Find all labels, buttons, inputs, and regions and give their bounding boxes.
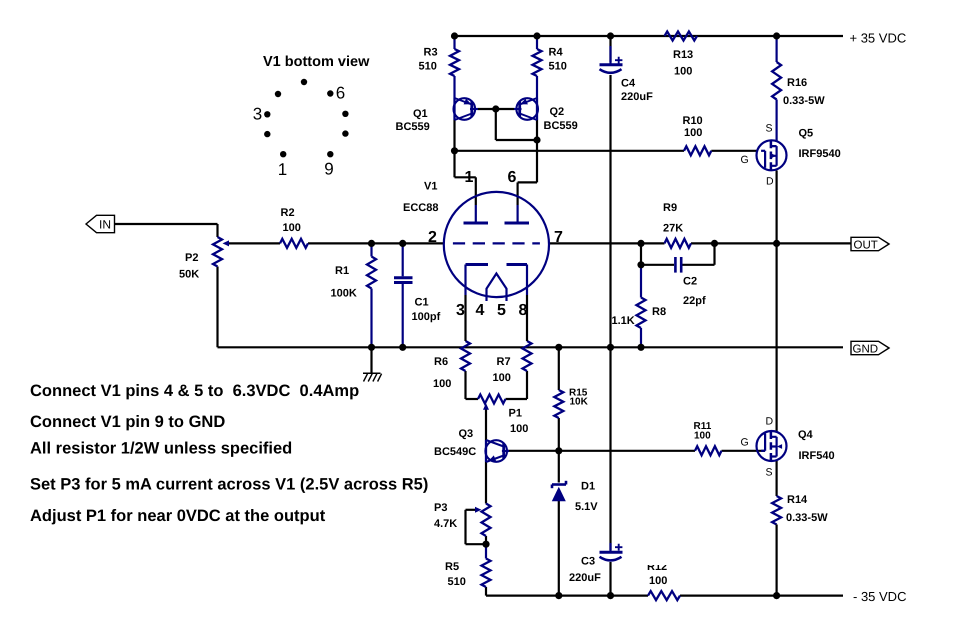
svg-text:R10: R10: [683, 115, 703, 127]
svg-text:IRF540: IRF540: [799, 450, 835, 462]
svg-text:100pf: 100pf: [412, 311, 441, 323]
V1 socket bottom view title: [263, 54, 370, 70]
potentiometer P3 4.7K: [434, 502, 491, 536]
junction R1 bottom/ground: [368, 344, 375, 351]
svg-text:Set P3 for 5 mA current across: Set P3 for 5 mA current across V1 (2.5V …: [30, 476, 428, 494]
svg-text:D: D: [766, 416, 774, 428]
transistor Q3 BC549C (NPN): [434, 428, 509, 462]
capacitor C1 100pf: [394, 243, 441, 347]
svg-text:S: S: [766, 123, 773, 135]
V1 heater filament (pins 4 and 5): [487, 274, 507, 302]
socket pin 1 label: [278, 160, 287, 179]
junction C2 left/R8 top: [637, 261, 644, 268]
resistor R5 510: [445, 544, 491, 588]
junction Q3 base/R15/D1: [555, 447, 562, 454]
resistor R2 100: [280, 207, 308, 248]
svg-text:P3: P3: [434, 502, 447, 514]
svg-text:BC559: BC559: [544, 120, 578, 132]
resistor R9 27K: [663, 202, 691, 248]
connector GND: [851, 341, 889, 355]
svg-text:D1: D1: [581, 481, 595, 493]
svg-text:V1 bottom view: V1 bottom view: [263, 54, 370, 70]
svg-text:0.33-5W: 0.33-5W: [786, 512, 828, 524]
svg-text:All resistor 1/2W unless speci: All resistor 1/2W unless specified: [30, 440, 292, 458]
note line 4: [30, 476, 428, 494]
V1 pin 7 label: [554, 229, 563, 246]
ground (earth) symbol below R1: [363, 347, 382, 381]
junction Q1-Q2 bases: [492, 105, 499, 112]
resistor R10 100: [683, 115, 712, 155]
svg-text:220uF: 220uF: [621, 91, 653, 103]
resistor R1 100K: [331, 243, 377, 347]
svg-text:+ 35 VDC: + 35 VDC: [850, 31, 907, 46]
svg-text:R8: R8: [652, 306, 666, 318]
junction R3/top rail: [451, 32, 458, 39]
svg-text:G: G: [741, 154, 749, 166]
resistor R13 100: [665, 32, 698, 78]
junction Q2 base-collector tie: [533, 136, 540, 143]
V1 pin 1 label: [465, 169, 474, 186]
wire Q1/Q2 base tie-down to Q2 collector: [496, 109, 537, 140]
svg-text:Connect V1 pin 9 to GND: Connect V1 pin 9 to GND: [30, 413, 225, 431]
svg-text:1: 1: [465, 169, 474, 186]
svg-text:G: G: [741, 437, 749, 449]
capacitor C3 220uF electrolytic: [569, 543, 623, 584]
note line 3: [30, 440, 292, 458]
zener diode D1 5.1V: [552, 481, 598, 514]
capacitor C2 22pf: [675, 257, 706, 307]
svg-text:5.1V: 5.1V: [575, 501, 598, 513]
resistor R8 1.1K: [612, 265, 667, 348]
svg-text:100: 100: [433, 378, 451, 390]
svg-text:3: 3: [456, 302, 465, 319]
wire P2 bottom to ground bus: [216, 267, 218, 348]
svg-text:0.33-5W: 0.33-5W: [783, 95, 825, 107]
svg-text:5: 5: [497, 302, 506, 319]
capacitor C4 220uF electrolytic: [600, 46, 654, 103]
junction R1 top: [368, 240, 375, 247]
svg-text:BC549C: BC549C: [434, 446, 476, 458]
V1 pin 2 label: [428, 229, 437, 246]
svg-text:Adjust P1 for near 0VDC at the: Adjust P1 for near 0VDC at the output: [30, 507, 326, 525]
potentiometer P1 100: [478, 395, 528, 436]
wire main output rail Q5 drain - OUT - Q4 drain: [775, 171, 777, 497]
transistor Q1 BC559 (PNP): [396, 98, 496, 151]
junction C1 bottom: [399, 344, 406, 351]
socket pin 6 label: [336, 84, 345, 103]
svg-text:C2: C2: [683, 276, 697, 288]
V1 cathodes (pins 3 and 8): [466, 265, 528, 342]
svg-text:100: 100: [510, 423, 528, 435]
V1 socket pin dots (bottom view): [264, 79, 349, 158]
svg-text:S: S: [766, 467, 773, 479]
transistor Q2 BC559 (PNP): [496, 98, 578, 132]
vacuum tube V1 ECC88 envelope: [403, 181, 549, 298]
junction OUT rail: [773, 240, 780, 247]
svg-text:C4: C4: [621, 78, 636, 90]
svg-text:100: 100: [649, 575, 667, 587]
svg-text:IRF9540: IRF9540: [799, 148, 841, 160]
svg-text:Q3: Q3: [459, 428, 474, 440]
svg-text:100: 100: [283, 222, 301, 234]
svg-text:100: 100: [674, 66, 692, 78]
svg-text:V1: V1: [424, 181, 437, 193]
V1 pin 8 label: [519, 302, 528, 319]
svg-text:OUT: OUT: [854, 239, 878, 251]
svg-text:Connect V1 pins 4 & 5 to 6.3V: Connect V1 pins 4 & 5 to 6.3VDC 0.4Amp: [30, 382, 359, 400]
wire V1 pin 7 to OUT line: [549, 242, 851, 244]
svg-text:510: 510: [549, 61, 567, 73]
net label +35 VDC: [850, 31, 907, 46]
wire R5 bottom to -35V rail: [485, 587, 487, 596]
wire IN to P2 top: [115, 224, 218, 237]
junction C1 top: [399, 240, 406, 247]
V1 pin 6 label: [508, 169, 517, 186]
V1 pin 5 label: [497, 302, 506, 319]
resistor R4 510: [533, 36, 567, 99]
net label -35 VDC: [853, 589, 906, 604]
svg-text:8: 8: [519, 302, 528, 319]
note line 2: [30, 413, 225, 431]
svg-text:R6: R6: [434, 356, 448, 368]
svg-text:2: 2: [428, 229, 437, 246]
svg-text:100: 100: [684, 127, 702, 139]
svg-text:Q2: Q2: [550, 106, 565, 118]
wire V1 pin 1 from Q1 collector junction: [455, 151, 476, 205]
resistor R11 100: [694, 421, 722, 455]
wire R6/R7 to P1 box: [466, 371, 528, 399]
svg-text:GND: GND: [853, 343, 879, 355]
svg-text:220uF: 220uF: [569, 572, 601, 584]
junction C3/-35 rail: [607, 592, 614, 599]
resistor R16 0.33-5W: [772, 36, 825, 141]
note line 1: [30, 382, 359, 400]
resistor R14 0.33-5W: [772, 494, 828, 596]
svg-text:22pf: 22pf: [683, 295, 706, 307]
svg-text:4: 4: [476, 302, 485, 319]
svg-text:ECC88: ECC88: [403, 202, 438, 214]
socket pin 3 label: [253, 105, 262, 124]
svg-text:27K: 27K: [663, 223, 683, 235]
resistor R3 510: [419, 36, 460, 99]
wire P3 wiper bypass to bottom of P3: [466, 510, 487, 544]
junction R16/top rail: [773, 32, 780, 39]
svg-text:R9: R9: [663, 202, 677, 214]
wire C2 branch around R9: [641, 243, 715, 264]
note line 5: [30, 507, 326, 525]
wire ground bus (P2/R1/C1/R15/C3-C4/R8 to GND tag): [218, 346, 844, 348]
resistor R7 100: [493, 341, 532, 384]
wire P3 to R5 junction: [485, 536, 487, 544]
potentiometer P2 50K: [179, 237, 229, 281]
svg-text:R5: R5: [445, 561, 459, 573]
wire +35V top rail: [455, 35, 844, 37]
resistor R12 100 (label top-clipped in source): [641, 549, 680, 600]
svg-text:510: 510: [419, 61, 437, 73]
svg-text:100: 100: [493, 372, 511, 384]
V1 anode plates (pins 1 and 6): [464, 205, 530, 223]
svg-text:R16: R16: [787, 77, 807, 89]
svg-text:6: 6: [508, 169, 517, 186]
svg-text:9: 9: [324, 160, 333, 179]
junction R4/top rail: [533, 32, 540, 39]
connector OUT: [851, 237, 889, 251]
svg-text:IN: IN: [99, 218, 111, 232]
resistor R15 10K: [554, 388, 588, 419]
junction C4/top rail: [607, 32, 614, 39]
junction C4-C3/ground bus: [607, 344, 614, 351]
junction R14/-35 rail: [773, 592, 780, 599]
svg-text:R14: R14: [787, 494, 808, 506]
socket pin 9 label: [324, 160, 333, 179]
svg-text:1: 1: [278, 160, 287, 179]
junction D1/-35 rail: [555, 592, 562, 599]
connector IN: [86, 215, 115, 232]
svg-text:510: 510: [448, 576, 466, 588]
wire Q3 emitter to P3: [485, 462, 487, 504]
svg-text:P2: P2: [185, 252, 198, 264]
wire R15/D1 stem: [558, 347, 560, 595]
V1 pin 3 label: [456, 302, 465, 319]
svg-text:C1: C1: [415, 297, 429, 309]
svg-text:4.7K: 4.7K: [434, 518, 457, 530]
svg-text:6: 6: [336, 84, 345, 103]
V1 pin 4 label: [476, 302, 485, 319]
wire R2 to V1 pin 2 (grid): [308, 242, 444, 244]
resistor R6 100: [433, 341, 470, 390]
svg-text:7: 7: [554, 229, 563, 246]
wire mirror-output line (Q1 collector to R10/Q5 gate): [455, 150, 758, 152]
svg-text:D: D: [766, 176, 774, 188]
V1 grid dashed line (pins 2 and 7): [453, 242, 540, 244]
svg-text:BC559: BC559: [396, 121, 430, 133]
svg-text:100: 100: [694, 431, 711, 442]
svg-text:R1: R1: [335, 265, 349, 277]
svg-text:1.1K: 1.1K: [612, 315, 635, 327]
MOSFET Q5 IRF9540 (P-channel): [741, 123, 841, 188]
svg-text:Q5: Q5: [799, 128, 814, 140]
junction R15 top: [555, 344, 562, 351]
svg-text:Q1: Q1: [413, 108, 428, 120]
svg-text:R13: R13: [673, 49, 693, 61]
wire C4/C3 vertical rail: [609, 36, 611, 596]
svg-text:10K: 10K: [570, 397, 589, 408]
wire -35V bottom rail: [486, 594, 843, 596]
wire Q3 base line to R11 / Q4 gate: [507, 450, 765, 452]
wire Q2 collector down to V1 pin 6 (crosses mirror line, no junction): [518, 120, 537, 206]
svg-text:P1: P1: [509, 408, 522, 420]
svg-text:Q4: Q4: [798, 429, 814, 441]
svg-text:50K: 50K: [179, 269, 199, 281]
MOSFET Q4 IRF540 (N-channel): [741, 416, 835, 479]
junction R9 left: [637, 240, 644, 247]
svg-text:R3: R3: [424, 47, 438, 59]
svg-text:100K: 100K: [331, 288, 357, 300]
junction Q1 collector node: [451, 147, 458, 154]
svg-text:R7: R7: [497, 356, 511, 368]
junction P3 bottom/R5 top: [482, 541, 489, 548]
svg-text:3: 3: [253, 105, 262, 124]
wire P1 wiper to Q3 collector: [485, 408, 487, 441]
svg-text:- 35 VDC: - 35 VDC: [853, 589, 906, 604]
svg-text:C3: C3: [581, 556, 595, 568]
svg-text:R4: R4: [549, 47, 564, 59]
wire P2 wiper to R2: [228, 242, 280, 244]
junction R9 right: [711, 240, 718, 247]
junction R8 bottom: [637, 344, 644, 351]
svg-text:R2: R2: [281, 207, 295, 219]
